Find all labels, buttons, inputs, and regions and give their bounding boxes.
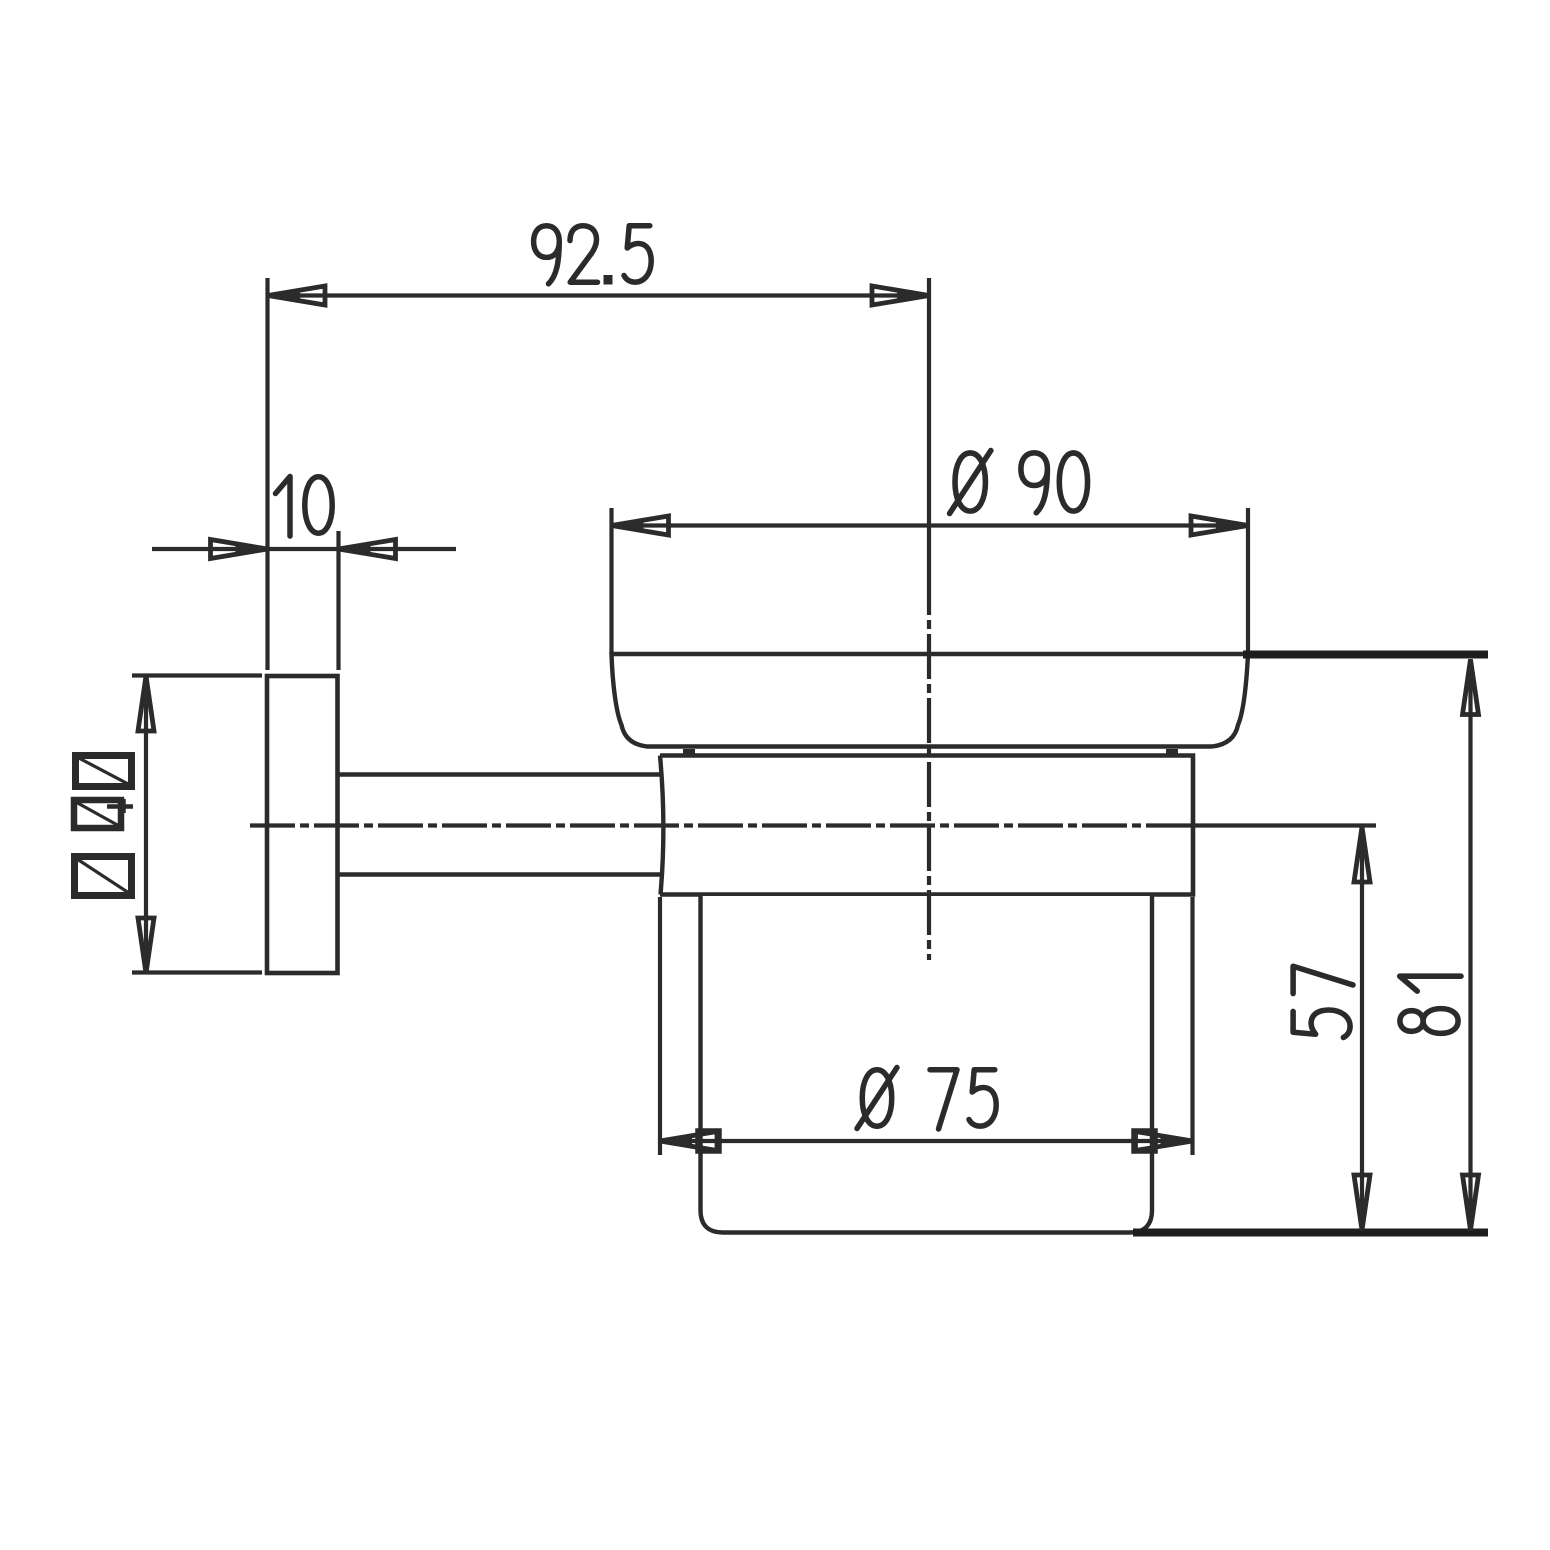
glyph box 2 diagonal bbox=[74, 801, 121, 827]
plate height extension top bbox=[132, 673, 262, 677]
label 10 bbox=[276, 477, 333, 537]
dimension D90 extension left bbox=[609, 508, 613, 652]
band left edge bulge bbox=[660, 756, 663, 895]
dimension 10 dim line bbox=[152, 547, 456, 551]
wall plate bbox=[267, 676, 338, 973]
dimension D90 dim line bbox=[612, 523, 1249, 527]
arrow plate height top (points up) bbox=[138, 676, 154, 731]
arrow plate height bottom (points down) bbox=[138, 918, 154, 973]
label D90 bbox=[950, 451, 1088, 514]
arrow 92.5 left bbox=[268, 286, 325, 305]
57 extension line bbox=[1193, 823, 1376, 827]
dimension 10 extension right bbox=[336, 531, 340, 670]
cup extension right bbox=[1190, 897, 1194, 1155]
label 57 bbox=[1293, 966, 1353, 1037]
gasket tick right bbox=[1166, 749, 1178, 754]
cup extension left bbox=[658, 897, 662, 1155]
arrow 92.5 right bbox=[872, 286, 929, 305]
arm bottom line bbox=[338, 872, 661, 876]
holder ring band bbox=[660, 756, 1193, 895]
plate height extension bottom bbox=[132, 970, 262, 974]
D75 box right bbox=[1134, 1131, 1156, 1152]
glyph box 2 cross horizontal bbox=[107, 804, 133, 809]
dimension D75 dim line bbox=[659, 1139, 1193, 1143]
glyph box 3 bbox=[75, 857, 132, 896]
dimension 81 dim line bbox=[1468, 659, 1472, 1231]
glyph box 1 bbox=[76, 756, 132, 787]
gasket tick left bbox=[683, 749, 695, 754]
glass dish (upper bowl) bbox=[612, 654, 1249, 747]
plate height dim line bbox=[144, 676, 148, 973]
arrow 57 top bbox=[1354, 827, 1370, 882]
dimension 92.5 extension left bbox=[265, 278, 269, 670]
dimension 92.5 dim line bbox=[268, 293, 929, 297]
arrow 81 bottom bbox=[1463, 1175, 1479, 1230]
dimension 57 dim line bbox=[1360, 826, 1364, 1231]
arrow D90 right bbox=[1191, 516, 1248, 535]
arrow D75 left bbox=[660, 1132, 717, 1151]
arrow 57 bottom bbox=[1354, 1175, 1370, 1230]
horizontal centerline bbox=[250, 823, 1193, 827]
datum thick line top bbox=[1243, 651, 1488, 659]
glyph box 2 cross vertical bbox=[121, 799, 126, 813]
dimension D90 extension right bbox=[1246, 508, 1250, 652]
label D75 bbox=[857, 1068, 996, 1130]
vertical centerline bbox=[927, 278, 931, 570]
glyph box 2 bbox=[74, 800, 121, 828]
arrow 10 left (points right) bbox=[211, 540, 268, 559]
label 81 bbox=[1400, 976, 1461, 1033]
arrow 10 right (points left) bbox=[339, 540, 396, 559]
arm top line bbox=[338, 772, 661, 776]
glyph box 1 diagonal bbox=[75, 756, 132, 786]
arrow 81 top bbox=[1463, 660, 1479, 715]
label 92.5 bbox=[534, 226, 652, 285]
glyph box 3 diagonal bbox=[74, 857, 132, 895]
arrow D90 left bbox=[612, 516, 669, 535]
arrow D75 right bbox=[1136, 1132, 1193, 1151]
datum thick line bottom bbox=[1133, 1229, 1488, 1237]
D75 box left bbox=[698, 1131, 720, 1152]
glass cup bbox=[701, 896, 1153, 1233]
